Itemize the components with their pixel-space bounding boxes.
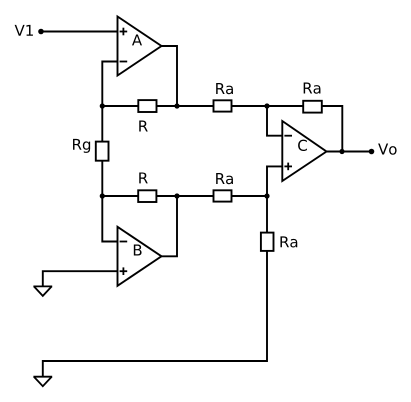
op-amp C (282, 121, 326, 181)
terminal V1 (38, 29, 44, 35)
resistor Ra3 (214, 190, 232, 201)
wire node B1 to resistor R2 (102, 195, 138, 197)
wire V1 to op-amp A non-inverting input (41, 31, 118, 33)
op-amp A (118, 17, 162, 76)
wire node B1 to B inverting input (102, 196, 117, 242)
resistor Rg (96, 142, 109, 161)
label Ra1 value (216, 83, 233, 94)
node C2 (264, 193, 269, 198)
wire node C1 to resistor Ra2 (267, 105, 303, 107)
wire resistor R2 to node B2 (156, 195, 177, 197)
label op-amp B (134, 245, 142, 256)
terminal Vo (369, 149, 375, 155)
label Vo (378, 144, 397, 155)
wire resistor Ra1 to node C1 (232, 105, 268, 107)
label Rg value (73, 139, 90, 153)
label R2 value (139, 172, 148, 183)
node output junction (339, 149, 344, 154)
wire node B2 to resistor Ra3 (177, 195, 214, 197)
node B2 (174, 193, 179, 198)
wire node A2 to resistor Ra1 (177, 105, 214, 107)
label op-amp C (298, 140, 307, 151)
label Ra4 value (280, 236, 297, 247)
label R1 value (139, 121, 148, 132)
wire node C1 to C inverting input (267, 106, 282, 136)
node B1 (100, 193, 105, 198)
resistor Ra4 (261, 233, 274, 251)
wire node A1 to resistor R1 (102, 105, 138, 107)
resistor Ra1 (214, 100, 232, 111)
wire B non-inverting input to ground 1 (43, 271, 118, 286)
op-amp B (118, 227, 162, 286)
label op-amp A (132, 34, 142, 45)
ground 2 (33, 377, 52, 387)
wire A output to node A2 (162, 46, 178, 106)
wire A inverting input to node A1 (102, 62, 117, 107)
wire resistor R1 to node A2 (157, 105, 178, 107)
wire C output to terminal Vo (327, 151, 372, 153)
wire node C2 to C non-inverting input (267, 166, 282, 196)
resistor Ra2 (303, 101, 322, 113)
node A2 (174, 103, 179, 108)
wire node C2 to resistor Ra4 (266, 196, 268, 233)
label Ra2 value (304, 83, 321, 94)
label V1 (15, 25, 33, 36)
resistor R1 (138, 100, 156, 112)
wire resistor Ra2 down to output node (322, 106, 343, 152)
wire resistor Rg to node B1 (101, 161, 103, 196)
node C1 (264, 103, 269, 108)
wire resistor Ra4 to ground 2 (43, 251, 267, 376)
wire B output to node B2 (162, 196, 178, 256)
ground 1 (33, 286, 52, 296)
resistor R2 (138, 190, 156, 202)
wire resistor Ra3 to node C2 (232, 195, 268, 197)
label Ra3 value (216, 173, 233, 184)
wire node A1 to resistor Rg (101, 106, 103, 142)
node A1 (100, 103, 105, 108)
